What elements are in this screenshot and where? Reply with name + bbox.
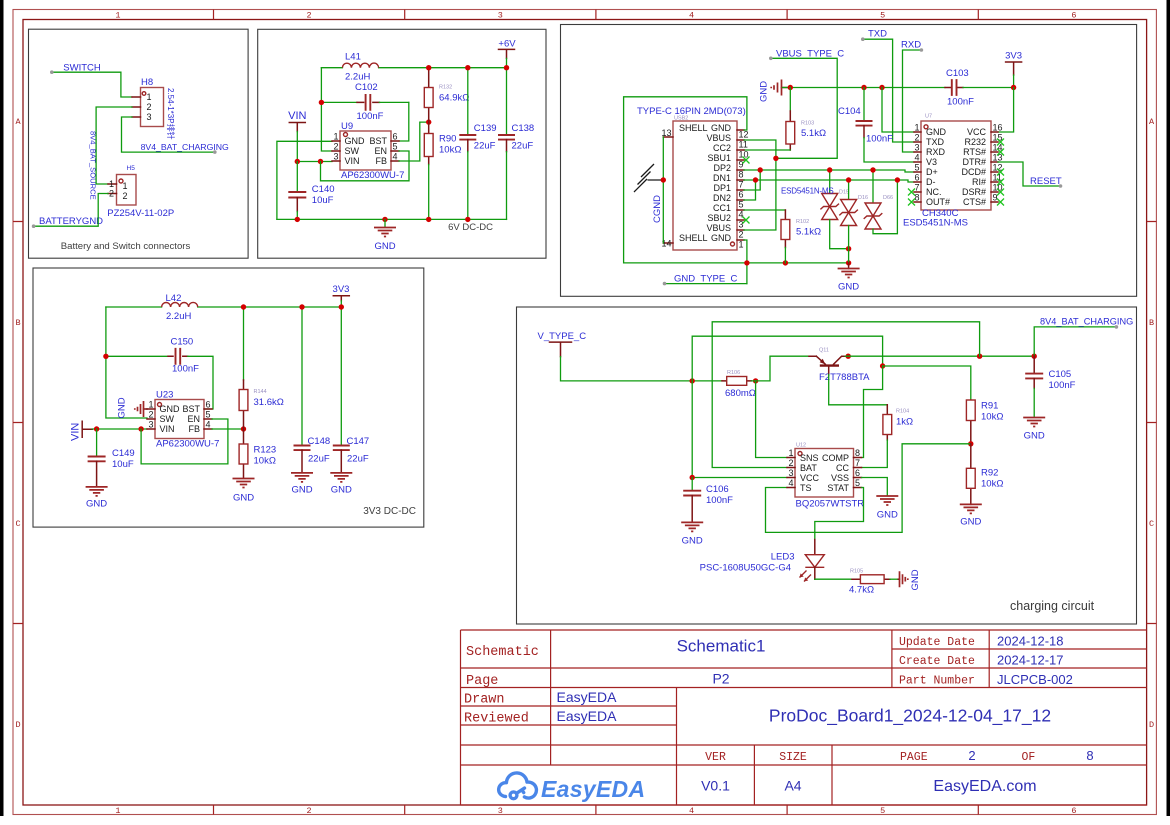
svg-text:100nF: 100nF <box>357 111 384 122</box>
svg-text:4: 4 <box>914 153 919 163</box>
junction V_TYPE_C/vertical <box>690 378 695 383</box>
svg-text:SW: SW <box>345 146 360 156</box>
svg-text:GND: GND <box>838 282 859 293</box>
svg-text:C150: C150 <box>171 337 194 348</box>
wire BATTERYGND to H5 pin2 <box>34 194 108 227</box>
svg-text:U23: U23 <box>156 390 173 401</box>
TVS diode D66 <box>864 170 898 234</box>
svg-text:6: 6 <box>393 132 398 142</box>
BATTERYGND endpoint <box>32 224 36 228</box>
capacitor C103 <box>945 79 1014 96</box>
svg-text:R103: R103 <box>801 121 814 127</box>
svg-text:3: 3 <box>914 143 919 153</box>
svg-text:EasyEDA: EasyEDA <box>557 689 618 705</box>
inductor L42 <box>162 302 198 307</box>
svg-text:7: 7 <box>855 458 860 468</box>
svg-text:A4: A4 <box>784 778 801 794</box>
svg-text:SNS: SNS <box>800 453 819 463</box>
svg-text:3: 3 <box>498 11 503 21</box>
wire SNS net <box>756 381 787 458</box>
svg-text:Q11: Q11 <box>819 348 829 354</box>
wire VIN flag down to VIN row <box>296 132 298 162</box>
svg-text:C139: C139 <box>474 123 497 134</box>
wire STAT to LED3 <box>815 488 864 540</box>
no-connect X SBU1 <box>743 157 750 164</box>
svg-text:680mΩ: 680mΩ <box>725 388 756 399</box>
svg-text:3: 3 <box>147 112 152 122</box>
SWITCH endpoint <box>50 70 54 74</box>
svg-text:2: 2 <box>109 189 114 199</box>
svg-text:NC.: NC. <box>926 187 942 197</box>
power flag 3V3 <box>1005 51 1022 76</box>
svg-text:USB2: USB2 <box>674 116 688 122</box>
svg-text:16: 16 <box>993 123 1003 133</box>
black screen edge strips <box>0 0 4 816</box>
TVS diode D15 <box>820 170 848 249</box>
svg-text:8V4_BAT_CHARGING: 8V4_BAT_CHARGING <box>1040 317 1133 327</box>
resistor R105 4.7k <box>852 575 890 584</box>
svg-text:9: 9 <box>739 160 744 170</box>
box4 border <box>33 268 424 527</box>
wire collector rail <box>845 355 1034 357</box>
wire U7 pin1 GND <box>882 88 914 133</box>
svg-text:4: 4 <box>788 478 793 488</box>
svg-text:7: 7 <box>914 183 919 193</box>
svg-text:R90: R90 <box>439 134 456 145</box>
svg-text:EN: EN <box>374 146 387 156</box>
svg-text:1kΩ: 1kΩ <box>896 417 913 428</box>
svg-text:22uF: 22uF <box>474 141 496 152</box>
svg-text:3: 3 <box>739 220 744 230</box>
svg-text:R91: R91 <box>981 401 998 412</box>
svg-text:SHELL: SHELL <box>679 233 708 243</box>
svg-text:VBUS: VBUS <box>706 133 731 143</box>
svg-text:GND: GND <box>86 499 107 510</box>
svg-text:SW: SW <box>160 414 175 424</box>
wire EN to VIN loop <box>321 151 410 181</box>
junction rail/R90 <box>426 217 431 222</box>
wire VIN row <box>92 428 147 430</box>
wire top rail 3V3 <box>106 306 341 308</box>
svg-text:C103: C103 <box>946 68 969 79</box>
connector H5 <box>108 175 136 206</box>
ground under C147 <box>330 473 352 496</box>
svg-text:C138: C138 <box>512 123 535 134</box>
svg-text:5: 5 <box>393 142 398 152</box>
svg-text:VCC: VCC <box>800 473 820 483</box>
junction rail/+6V/C138 <box>504 65 509 70</box>
svg-text:6: 6 <box>914 173 919 183</box>
svg-text:+6V: +6V <box>498 39 516 50</box>
wire SW node vertical <box>321 68 332 151</box>
svg-text:charging circuit: charging circuit <box>1010 599 1095 613</box>
box3 border <box>561 25 1137 297</box>
svg-text:RESET: RESET <box>1030 176 1062 187</box>
wire DTR# to RESET <box>998 162 1061 186</box>
wire top rail SW node to +6V <box>321 67 506 69</box>
svg-text:V_TYPE_C: V_TYPE_C <box>538 331 587 342</box>
junction C105 tap <box>1032 354 1037 359</box>
svg-text:5: 5 <box>206 410 211 420</box>
svg-text:D66: D66 <box>883 195 893 201</box>
svg-text:C148: C148 <box>308 436 331 447</box>
svg-text:EN: EN <box>187 414 200 424</box>
svg-text:3V3 DC-DC: 3V3 DC-DC <box>363 506 416 517</box>
junction VBUS/VBUS_TYPE_C <box>773 156 778 161</box>
svg-text:2024-12-17: 2024-12-17 <box>997 653 1064 668</box>
svg-text:C104: C104 <box>838 106 861 117</box>
svg-text:2: 2 <box>914 133 919 143</box>
IC U9 AP62300WU-7 <box>332 131 399 170</box>
svg-text:8: 8 <box>855 448 860 458</box>
ground under C149 <box>86 487 108 510</box>
svg-text:C: C <box>1149 519 1154 529</box>
resistor R91 10k <box>966 400 975 444</box>
svg-text:AP62300WU-7: AP62300WU-7 <box>341 170 404 181</box>
wire GND_TYPE_C <box>665 283 747 285</box>
wire SHELL pins vertical <box>662 137 664 243</box>
junction BAT drop <box>977 354 982 359</box>
svg-text:64.9kΩ: 64.9kΩ <box>439 92 469 103</box>
ground GND box2 <box>374 219 396 252</box>
junction SW/C150 <box>103 354 108 359</box>
svg-text:D16: D16 <box>858 195 868 201</box>
svg-text:TXD: TXD <box>868 29 887 40</box>
svg-text:4: 4 <box>689 11 694 21</box>
8V4_BAT_CHARGING endpoint <box>213 150 217 154</box>
svg-text:D15: D15 <box>839 190 849 196</box>
svg-text:VSS: VSS <box>831 473 849 483</box>
svg-text:4: 4 <box>393 152 398 162</box>
wire RXD to U7 pin3 <box>903 50 922 152</box>
junction R91/R92 <box>968 441 973 446</box>
svg-text:1: 1 <box>148 400 153 410</box>
svg-text:CC2: CC2 <box>713 143 731 153</box>
svg-text:TXD: TXD <box>926 137 945 147</box>
resistor R102 5.1k <box>781 210 790 263</box>
junction VIN/C140 <box>295 159 300 164</box>
svg-text:6: 6 <box>206 400 211 410</box>
junction rail/GND <box>382 217 387 222</box>
junction R106/SNS <box>753 378 758 383</box>
svg-text:STAT: STAT <box>827 483 849 493</box>
junction GND/C104 <box>861 85 866 90</box>
junction D-/D66 <box>895 177 900 182</box>
svg-text:3V3: 3V3 <box>1005 51 1022 62</box>
svg-text:C105: C105 <box>1049 369 1072 380</box>
svg-text:1: 1 <box>115 806 120 816</box>
svg-text:A: A <box>15 117 21 127</box>
no-connect X U7 pin8 <box>908 199 915 206</box>
junction VIN/EN loop <box>318 159 323 164</box>
junction FB node <box>426 119 431 124</box>
svg-text:GND: GND <box>759 81 770 102</box>
svg-text:GND_TYPE_C: GND_TYPE_C <box>674 273 737 284</box>
svg-text:ESD5451N-MS: ESD5451N-MS <box>781 187 834 196</box>
CGND antenna symbol <box>634 164 663 192</box>
svg-text:FB: FB <box>188 424 200 434</box>
svg-text:RTS#: RTS# <box>963 147 986 157</box>
8V4_BAT_CHARGING endpoint <box>1115 325 1119 329</box>
svg-text:100nF: 100nF <box>947 97 974 108</box>
wire VCC net <box>692 381 787 478</box>
svg-text:5.1kΩ: 5.1kΩ <box>796 227 821 238</box>
svg-text:C102: C102 <box>355 82 378 93</box>
svg-text:31.6kΩ: 31.6kΩ <box>254 397 284 408</box>
svg-text:8V4_BAT_SOURCE: 8V4_BAT_SOURCE <box>89 131 98 200</box>
svg-text:H8: H8 <box>141 77 153 88</box>
svg-text:TS: TS <box>800 483 812 493</box>
svg-text:BAT: BAT <box>800 463 817 473</box>
svg-text:PAGE: PAGE <box>900 751 928 764</box>
GND_TYPE_C endpoint <box>663 282 667 286</box>
svg-text:RXD: RXD <box>926 147 946 157</box>
wire GND pin1 to left loop <box>277 141 332 219</box>
svg-text:2.54-1*3P排针: 2.54-1*3P排针 <box>166 88 176 140</box>
capacitor C102 <box>321 94 408 111</box>
svg-text:10kΩ: 10kΩ <box>981 479 1003 490</box>
junction DP1/DP2 <box>758 167 763 172</box>
svg-text:5: 5 <box>880 11 885 21</box>
wire FB to divider <box>212 428 244 430</box>
resistor R123 10k <box>239 429 248 478</box>
inductor L41 <box>342 63 378 68</box>
svg-text:DP2: DP2 <box>713 163 731 173</box>
svg-text:R104: R104 <box>896 409 909 415</box>
svg-text:P2: P2 <box>712 671 729 687</box>
svg-text:VCC: VCC <box>967 127 987 137</box>
junction Q11 collector <box>846 354 851 359</box>
svg-text:11: 11 <box>993 173 1002 183</box>
junction rail/C140 <box>295 217 300 222</box>
junction rail/R132 <box>426 65 431 70</box>
junction GND rail / D16 <box>846 260 851 265</box>
wire CC2 to R103 <box>744 149 790 151</box>
svg-text:2: 2 <box>123 191 128 201</box>
svg-text:C140: C140 <box>312 184 335 195</box>
resistor R104 1k <box>862 405 892 468</box>
TYPE-C connector USB2 <box>663 121 744 250</box>
resistor R106 680m <box>722 377 751 386</box>
svg-text:CGND: CGND <box>652 195 663 223</box>
junction CGND <box>661 177 666 182</box>
svg-text:22uF: 22uF <box>308 454 330 465</box>
no-connect X U7 pin15 <box>997 139 1004 146</box>
svg-text:10kΩ: 10kΩ <box>981 412 1003 423</box>
svg-text:D: D <box>1149 720 1154 730</box>
svg-text:V3: V3 <box>926 157 937 167</box>
svg-text:SIZE: SIZE <box>779 751 807 764</box>
svg-text:100nF: 100nF <box>866 134 893 145</box>
svg-text:GND: GND <box>233 493 254 504</box>
svg-text:VER: VER <box>705 751 726 764</box>
VBUS_TYPE_C endpoint <box>769 57 773 61</box>
svg-text:GND: GND <box>926 127 947 137</box>
svg-text:2.2uH: 2.2uH <box>345 72 370 83</box>
svg-text:12: 12 <box>739 130 749 140</box>
svg-text:SBU2: SBU2 <box>707 213 731 223</box>
junction rail/C147/3V3 <box>339 304 344 309</box>
svg-text:Drawn: Drawn <box>464 693 505 708</box>
svg-text:4: 4 <box>739 210 744 220</box>
svg-text:C: C <box>15 519 20 529</box>
junction GND loop / GND_TYPE_C <box>744 260 749 265</box>
svg-text:8: 8 <box>1086 748 1093 763</box>
svg-text:R102: R102 <box>796 219 809 225</box>
junction rail/C148 <box>299 304 304 309</box>
svg-text:Schematic: Schematic <box>466 645 539 660</box>
wire 8V4_BAT_CHARGING <box>1034 327 1116 356</box>
IC U7 CH340C <box>914 121 998 210</box>
ground right of R105 (rotated) <box>898 569 921 590</box>
svg-text:GND: GND <box>682 536 703 547</box>
wire DP1 join <box>744 170 760 190</box>
svg-text:DN1: DN1 <box>713 173 731 183</box>
svg-text:11: 11 <box>739 140 748 150</box>
svg-text:8V4_BAT_CHARGING: 8V4_BAT_CHARGING <box>141 142 229 152</box>
svg-text:3V3: 3V3 <box>333 284 350 295</box>
svg-text:GND: GND <box>117 397 128 418</box>
svg-text:6V DC-DC: 6V DC-DC <box>448 222 493 233</box>
resistor R90 10k <box>424 122 433 219</box>
IC U12 BQ2057WTSTR <box>787 449 862 498</box>
power flag V_TYPE_C <box>538 331 587 357</box>
svg-text:D: D <box>15 720 20 730</box>
wire D+ line <box>744 170 914 172</box>
svg-text:PSC-1608U50GC-G4: PSC-1608U50GC-G4 <box>700 563 791 574</box>
frame ticks left <box>13 222 23 624</box>
svg-text:4: 4 <box>689 806 694 816</box>
wire bottom GND rail <box>277 218 507 220</box>
svg-text:2024-12-18: 2024-12-18 <box>997 634 1064 649</box>
LED LED3 <box>800 540 825 582</box>
wire V_TYPE_C run <box>561 357 723 381</box>
capacitor C105 <box>1025 356 1043 417</box>
wire VBUS_TYPE_C <box>771 58 837 158</box>
no-connect X U7 pin12 <box>997 169 1004 176</box>
svg-text:4.7kΩ: 4.7kΩ <box>849 585 874 596</box>
wire R106 to Q11 emitter <box>751 356 809 381</box>
svg-text:A: A <box>1149 117 1155 127</box>
svg-text:R105: R105 <box>850 569 863 575</box>
TXD endpoint <box>861 37 865 41</box>
svg-text:BST: BST <box>182 404 200 414</box>
wire 3V3 stem to GND/C103 rail <box>1013 75 1015 88</box>
capacitor C148 <box>294 307 311 472</box>
svg-text:Battery and Switch connectors: Battery and Switch connectors <box>61 241 191 252</box>
svg-text:GND: GND <box>160 404 181 414</box>
svg-text:GND: GND <box>910 569 921 590</box>
wire GND rail <box>783 87 946 89</box>
wire connector GND loop <box>624 97 849 284</box>
junction 3V3/C103 <box>1011 85 1016 90</box>
junction VIN/C149 <box>94 426 99 431</box>
svg-text:TYPE-C 16PIN 2MD(073): TYPE-C 16PIN 2MD(073) <box>637 106 746 117</box>
svg-text:DTR#: DTR# <box>962 157 986 167</box>
svg-text:3: 3 <box>148 420 153 430</box>
transistor Q11 F2T788BTA <box>809 356 846 374</box>
svg-text:LED3: LED3 <box>771 552 795 563</box>
wire VSS to ground <box>862 478 888 496</box>
TVS diode D16 <box>839 180 858 263</box>
ground under C105 <box>1023 418 1045 442</box>
junction D+/D66 <box>870 167 875 172</box>
junction D-/D16 <box>846 177 851 182</box>
ground under R123 <box>233 479 255 504</box>
svg-text:ESD5451N-MS: ESD5451N-MS <box>903 218 968 229</box>
svg-text:RXD: RXD <box>901 40 921 51</box>
svg-text:ProDoc_Board1_2024-12-04_17_12: ProDoc_Board1_2024-12-04_17_12 <box>769 706 1051 727</box>
svg-text:2: 2 <box>788 458 793 468</box>
svg-text:8: 8 <box>914 193 919 203</box>
svg-text:DN2: DN2 <box>713 193 731 203</box>
svg-text:U9: U9 <box>341 121 353 132</box>
svg-text:10uF: 10uF <box>112 459 134 470</box>
svg-text:1: 1 <box>333 132 338 142</box>
resistor R144 31.6k <box>239 307 248 429</box>
junction SW/C102 <box>319 100 324 105</box>
svg-text:10kΩ: 10kΩ <box>439 145 461 156</box>
no-connect X U7 pin9 <box>997 199 1004 206</box>
svg-text:DCD#: DCD# <box>961 167 986 177</box>
svg-text:CC: CC <box>836 463 849 473</box>
svg-text:Create Date: Create Date <box>899 655 975 668</box>
wire LED3 to R105 <box>815 578 852 580</box>
ground (rotated) left of GND rail <box>759 80 789 103</box>
junction GND/U7pin1 <box>879 85 884 90</box>
svg-text:OF: OF <box>1022 751 1036 764</box>
no-connect X U7 pin7 <box>908 189 915 196</box>
wire CC1 to R102 <box>744 209 785 211</box>
svg-text:VIN: VIN <box>288 110 306 122</box>
svg-text:Schematic1: Schematic1 <box>677 637 766 656</box>
svg-text:5: 5 <box>880 806 885 816</box>
svg-text:C149: C149 <box>112 448 135 459</box>
svg-text:10kΩ: 10kΩ <box>254 456 276 467</box>
power flag +6V <box>498 39 516 68</box>
wire D- line <box>744 180 914 182</box>
svg-text:GND: GND <box>960 517 981 528</box>
ground under R92 <box>960 504 982 527</box>
svg-text:DP1: DP1 <box>713 183 731 193</box>
frame ticks right <box>1147 222 1157 624</box>
wire base node down to COMP <box>862 366 883 458</box>
svg-text:13: 13 <box>993 153 1003 163</box>
box2 border <box>258 29 546 258</box>
connector H8 <box>132 88 164 127</box>
junction DN2/DN1 <box>753 177 758 182</box>
svg-text:U12: U12 <box>796 443 806 449</box>
svg-text:D+: D+ <box>926 167 938 177</box>
RESET endpoint <box>1059 184 1063 188</box>
svg-text:AP62300WU-7: AP62300WU-7 <box>156 439 219 450</box>
svg-text:1: 1 <box>123 181 128 191</box>
svg-text:2: 2 <box>147 102 152 112</box>
svg-text:U7: U7 <box>925 114 932 120</box>
resistor R103 5.1k <box>786 88 795 151</box>
wire R105 to ground <box>890 578 898 580</box>
capacitor C150 <box>106 348 213 409</box>
svg-text:3: 3 <box>498 806 503 816</box>
wire C102 to BST <box>399 102 409 141</box>
svg-text:SHELL: SHELL <box>679 123 708 133</box>
svg-text:5: 5 <box>855 478 860 488</box>
svg-text:6: 6 <box>1071 11 1076 21</box>
svg-text:RI#: RI# <box>972 177 986 187</box>
svg-text:OUT#: OUT# <box>926 197 950 207</box>
no-connect X U7 pin10 <box>997 189 1004 196</box>
svg-text:CTS#: CTS# <box>963 197 986 207</box>
